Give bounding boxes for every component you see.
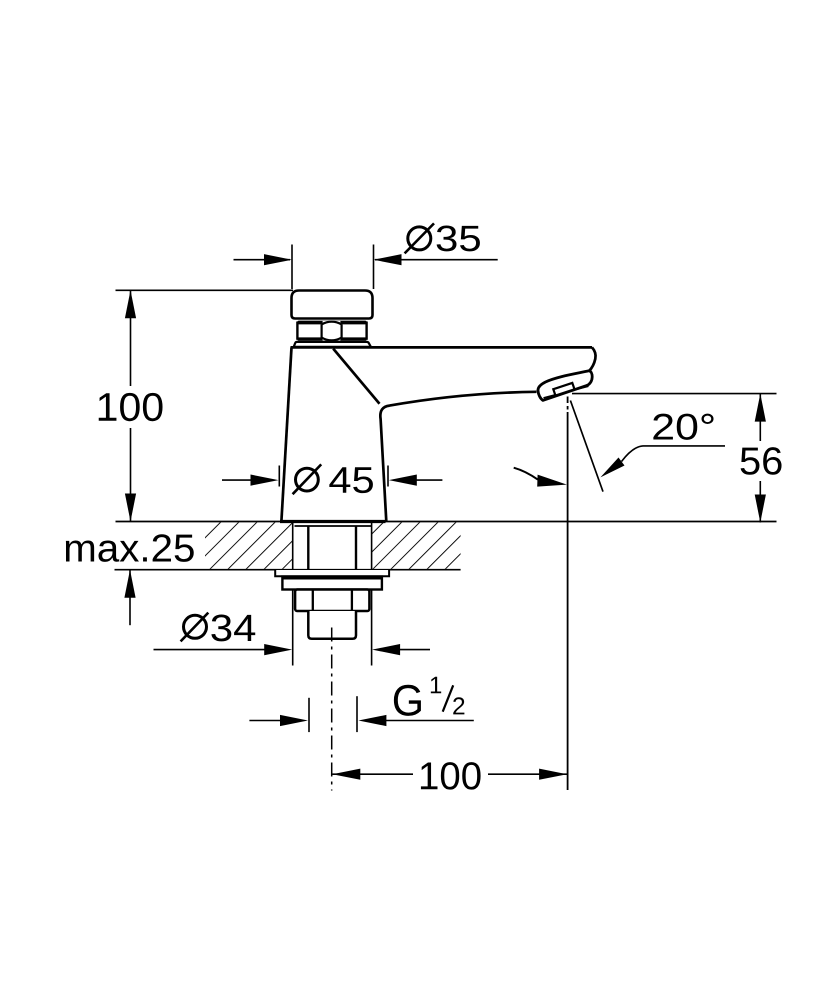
faucet body and spout outline: [280, 347, 596, 521]
20 degree slanted stream line: [570, 401, 603, 492]
dimension G 1/2: [249, 696, 473, 732]
backnut plate: [282, 577, 382, 590]
dimension Ø45: [222, 466, 442, 487]
swivel arc with arrow: [514, 468, 538, 480]
washer plate under slab: [275, 570, 389, 576]
dimension Ø35: [234, 245, 498, 290]
diagonal body/spout junction line: [333, 349, 379, 404]
dimension 100 (left height): [116, 290, 294, 521]
aerator inner edge line: [544, 386, 589, 398]
hex backnut: [295, 590, 369, 612]
washer band below hex: [297, 337, 366, 340]
base bottom edge: [280, 520, 386, 523]
20 degree label and leader: [653, 414, 713, 440]
aerator outlet: [553, 383, 574, 396]
cap (push knob): [292, 291, 373, 319]
shank pipe edges through slab: [307, 526, 309, 570]
hex nut: [297, 321, 366, 341]
vertical line from spout tip: [567, 397, 569, 791]
shank through slab: Ø34 extension/outer lines: [292, 522, 294, 666]
body left edge: [281, 348, 291, 522]
aerator housing: [538, 371, 592, 401]
slab bottom line: [115, 569, 461, 571]
spout tip end curve: [589, 347, 596, 371]
body right edge + spout underside: [380, 392, 536, 522]
flange at top of body: [294, 342, 371, 347]
dimension 100 (bottom): [332, 773, 567, 775]
slab hatching left: [205, 522, 293, 569]
dimension 56 (right): [572, 394, 777, 523]
slab hatching right: [372, 522, 461, 569]
dimension max.25: [129, 570, 131, 626]
slab top line / counter surface: [116, 521, 777, 523]
threaded pipe G1/2: [308, 611, 356, 639]
dimension Ø34: [154, 649, 431, 651]
top line of shank in hole: [295, 525, 372, 527]
spout top line: [291, 346, 593, 349]
washer band under cap: [297, 321, 366, 325]
center line (dash-dot): [331, 628, 333, 791]
